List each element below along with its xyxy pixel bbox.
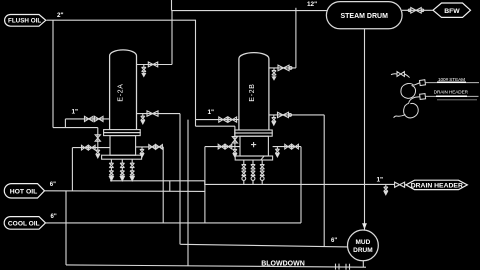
- wire BFW line: [402, 9, 433, 11]
- wire E-2B steam outlet: [269, 67, 296, 69]
- valve pair channel outlet: [149, 145, 156, 150]
- svg-text:100# STEAM: 100# STEAM: [438, 77, 465, 82]
- doodle tail and loop 2: [394, 97, 420, 118]
- valve BFW: [411, 8, 421, 14]
- vessel E-2A: [110, 50, 137, 130]
- wire drop w/ valve to channel feed: [97, 128, 99, 148]
- bleed E-2A outlet: [141, 114, 145, 124]
- steam drum: [326, 2, 402, 29]
- wire E-2B 1in outlet: [269, 114, 324, 116]
- wire E-2B outlet drop: [323, 115, 325, 247]
- bleed valve E-2A steam: [142, 65, 146, 77]
- drip leg E-2A #1: [109, 159, 113, 180]
- drip leg E-2A #2: [120, 159, 124, 180]
- wire hot oil drop to blowdown bottom: [65, 191, 67, 265]
- legend box 1: [420, 80, 426, 86]
- wire flush drop left: [52, 20, 54, 127]
- drain stub below channel feed: [96, 148, 100, 158]
- scribble tick on E-2B lower flange: [261, 156, 265, 160]
- wire blowdown bottom: [66, 265, 366, 267]
- scribble plus in E-2B channel: [251, 142, 256, 147]
- tag DRAIN HEADER: [406, 180, 467, 189]
- bleed E-2B outlet: [272, 115, 276, 125]
- wire E-2A 1in inlet: [65, 118, 109, 120]
- bleed E-2B channel outlet: [275, 147, 279, 157]
- tag HOT OIL: [4, 184, 44, 198]
- wire hot oil riser to channel: [71, 148, 73, 191]
- wire drain header into tag: [405, 184, 406, 186]
- wire flush sub-header E-2B: [196, 125, 235, 127]
- legend line 1: [426, 82, 480, 84]
- wire cool oil line: [46, 222, 302, 224]
- vessel E-2B: [239, 53, 269, 130]
- wire drop with valve to channel feed E-2B: [234, 126, 236, 146]
- valve pair E-2B channel outlet: [285, 144, 292, 149]
- svg-text:DRUM: DRUM: [353, 247, 373, 254]
- valve pair E-2B channel feed: [218, 144, 225, 149]
- drip leg E-2A #3: [130, 159, 134, 180]
- wire E-2B 1in inlet: [196, 119, 239, 121]
- svg-text:12": 12": [307, 1, 317, 8]
- wire E-2B channel feed: [205, 146, 240, 148]
- tag BFW: [433, 3, 471, 17]
- svg-text:MUD: MUD: [355, 239, 370, 246]
- wire flush sub-header E-2A: [53, 127, 98, 129]
- vessel E-2A flanges: [102, 130, 142, 160]
- svg-text:1": 1": [377, 177, 384, 184]
- wire long drop: [187, 120, 189, 266]
- wire E-2B feed drop from cool oil: [204, 147, 206, 223]
- wire link: [64, 119, 66, 128]
- doodle valve sketch: [391, 72, 410, 78]
- svg-text:E-2B: E-2B: [249, 83, 256, 101]
- wire 12in steam header: [171, 10, 326, 12]
- bleed valve E-2B steam: [272, 68, 276, 80]
- valve E-2A outlet: [147, 111, 158, 116]
- flange ticks on blowdown: [336, 264, 350, 270]
- svg-text:2": 2": [57, 12, 64, 19]
- legend line 2: [426, 95, 479, 97]
- svg-text:BFW: BFW: [444, 8, 460, 15]
- arrow into mud drum: [362, 223, 367, 229]
- wire mud drum feed: [180, 244, 347, 247]
- svg-text:HOT OIL: HOT OIL: [10, 188, 38, 195]
- vessel E-2B flanges: [235, 130, 273, 160]
- svg-text:BLOWDOWN: BLOWDOWN: [261, 260, 305, 267]
- svg-text:6": 6": [51, 214, 57, 220]
- svg-text:6": 6": [331, 238, 337, 244]
- wire E-2A steam riser: [171, 11, 173, 65]
- wire E-2A 1in outlet: [137, 113, 181, 115]
- legend box 2: [420, 94, 426, 100]
- valve E-2B outlet: [278, 112, 289, 117]
- svg-text:E-2A: E-2A: [118, 83, 125, 101]
- wire riser stub overshoot: [171, 0, 173, 11]
- valve vertical E-2B: [232, 137, 237, 143]
- valve pair channel feed: [82, 145, 89, 150]
- legend doodles: [391, 72, 479, 118]
- drip leg E-2B #1: [242, 160, 246, 184]
- wire flush drop right (to E-2B): [195, 20, 197, 126]
- valve vertical E-2A: [95, 135, 100, 141]
- svg-text:1": 1": [72, 109, 79, 116]
- wire E-2B steam riser: [295, 8, 297, 68]
- wire E-2A steam outlet: [137, 64, 173, 66]
- valve steam E-2B: [278, 65, 289, 71]
- wire cool oil riser E-2B: [300, 147, 302, 223]
- svg-text:FLUSH OIL: FLUSH OIL: [8, 18, 41, 25]
- bleed before drain header valve: [384, 185, 388, 195]
- wire E-2A channel feed: [72, 147, 110, 149]
- wire flush oil header: [47, 19, 197, 21]
- wire hot oil line: [45, 190, 206, 193]
- drip leg E-2B #2: [251, 160, 255, 184]
- doodle loop 1: [401, 83, 420, 98]
- wire outlet drop to blowdown: [179, 114, 181, 245]
- drip leg E-2B #3: [260, 160, 264, 184]
- svg-text:STEAM DRUM: STEAM DRUM: [340, 13, 388, 20]
- valve steam E-2A: [148, 62, 157, 67]
- valves E-2A 1in inlet: [85, 116, 94, 121]
- svg-text:6": 6": [50, 182, 56, 188]
- wire channel outlet drop to cool oil: [162, 147, 164, 223]
- tag FLUSH OIL: [5, 15, 46, 27]
- mud drum: [348, 230, 379, 261]
- wire drain header: [110, 181, 395, 185]
- svg-text:DRAIN HEADER: DRAIN HEADER: [411, 182, 463, 189]
- wire mud drum bottom stub: [362, 261, 364, 267]
- wire E-2A channel outlet: [136, 146, 164, 148]
- wire downcomer steam->mud drum: [364, 29, 366, 230]
- tag COOL OIL: [4, 217, 45, 230]
- svg-text:DRAIN HEADER: DRAIN HEADER: [434, 90, 469, 95]
- drain stub E-2B: [233, 147, 237, 157]
- svg-text:1": 1": [208, 109, 215, 116]
- valve drain header 1in: [395, 182, 405, 187]
- bleed E-2A channel outlet: [140, 147, 144, 157]
- wire E-2B channel outlet: [273, 146, 301, 148]
- svg-text:COOL OIL: COOL OIL: [8, 220, 40, 227]
- wire header-hotoil link: [169, 181, 171, 191]
- valves E-2B 1in inlet: [219, 117, 227, 122]
